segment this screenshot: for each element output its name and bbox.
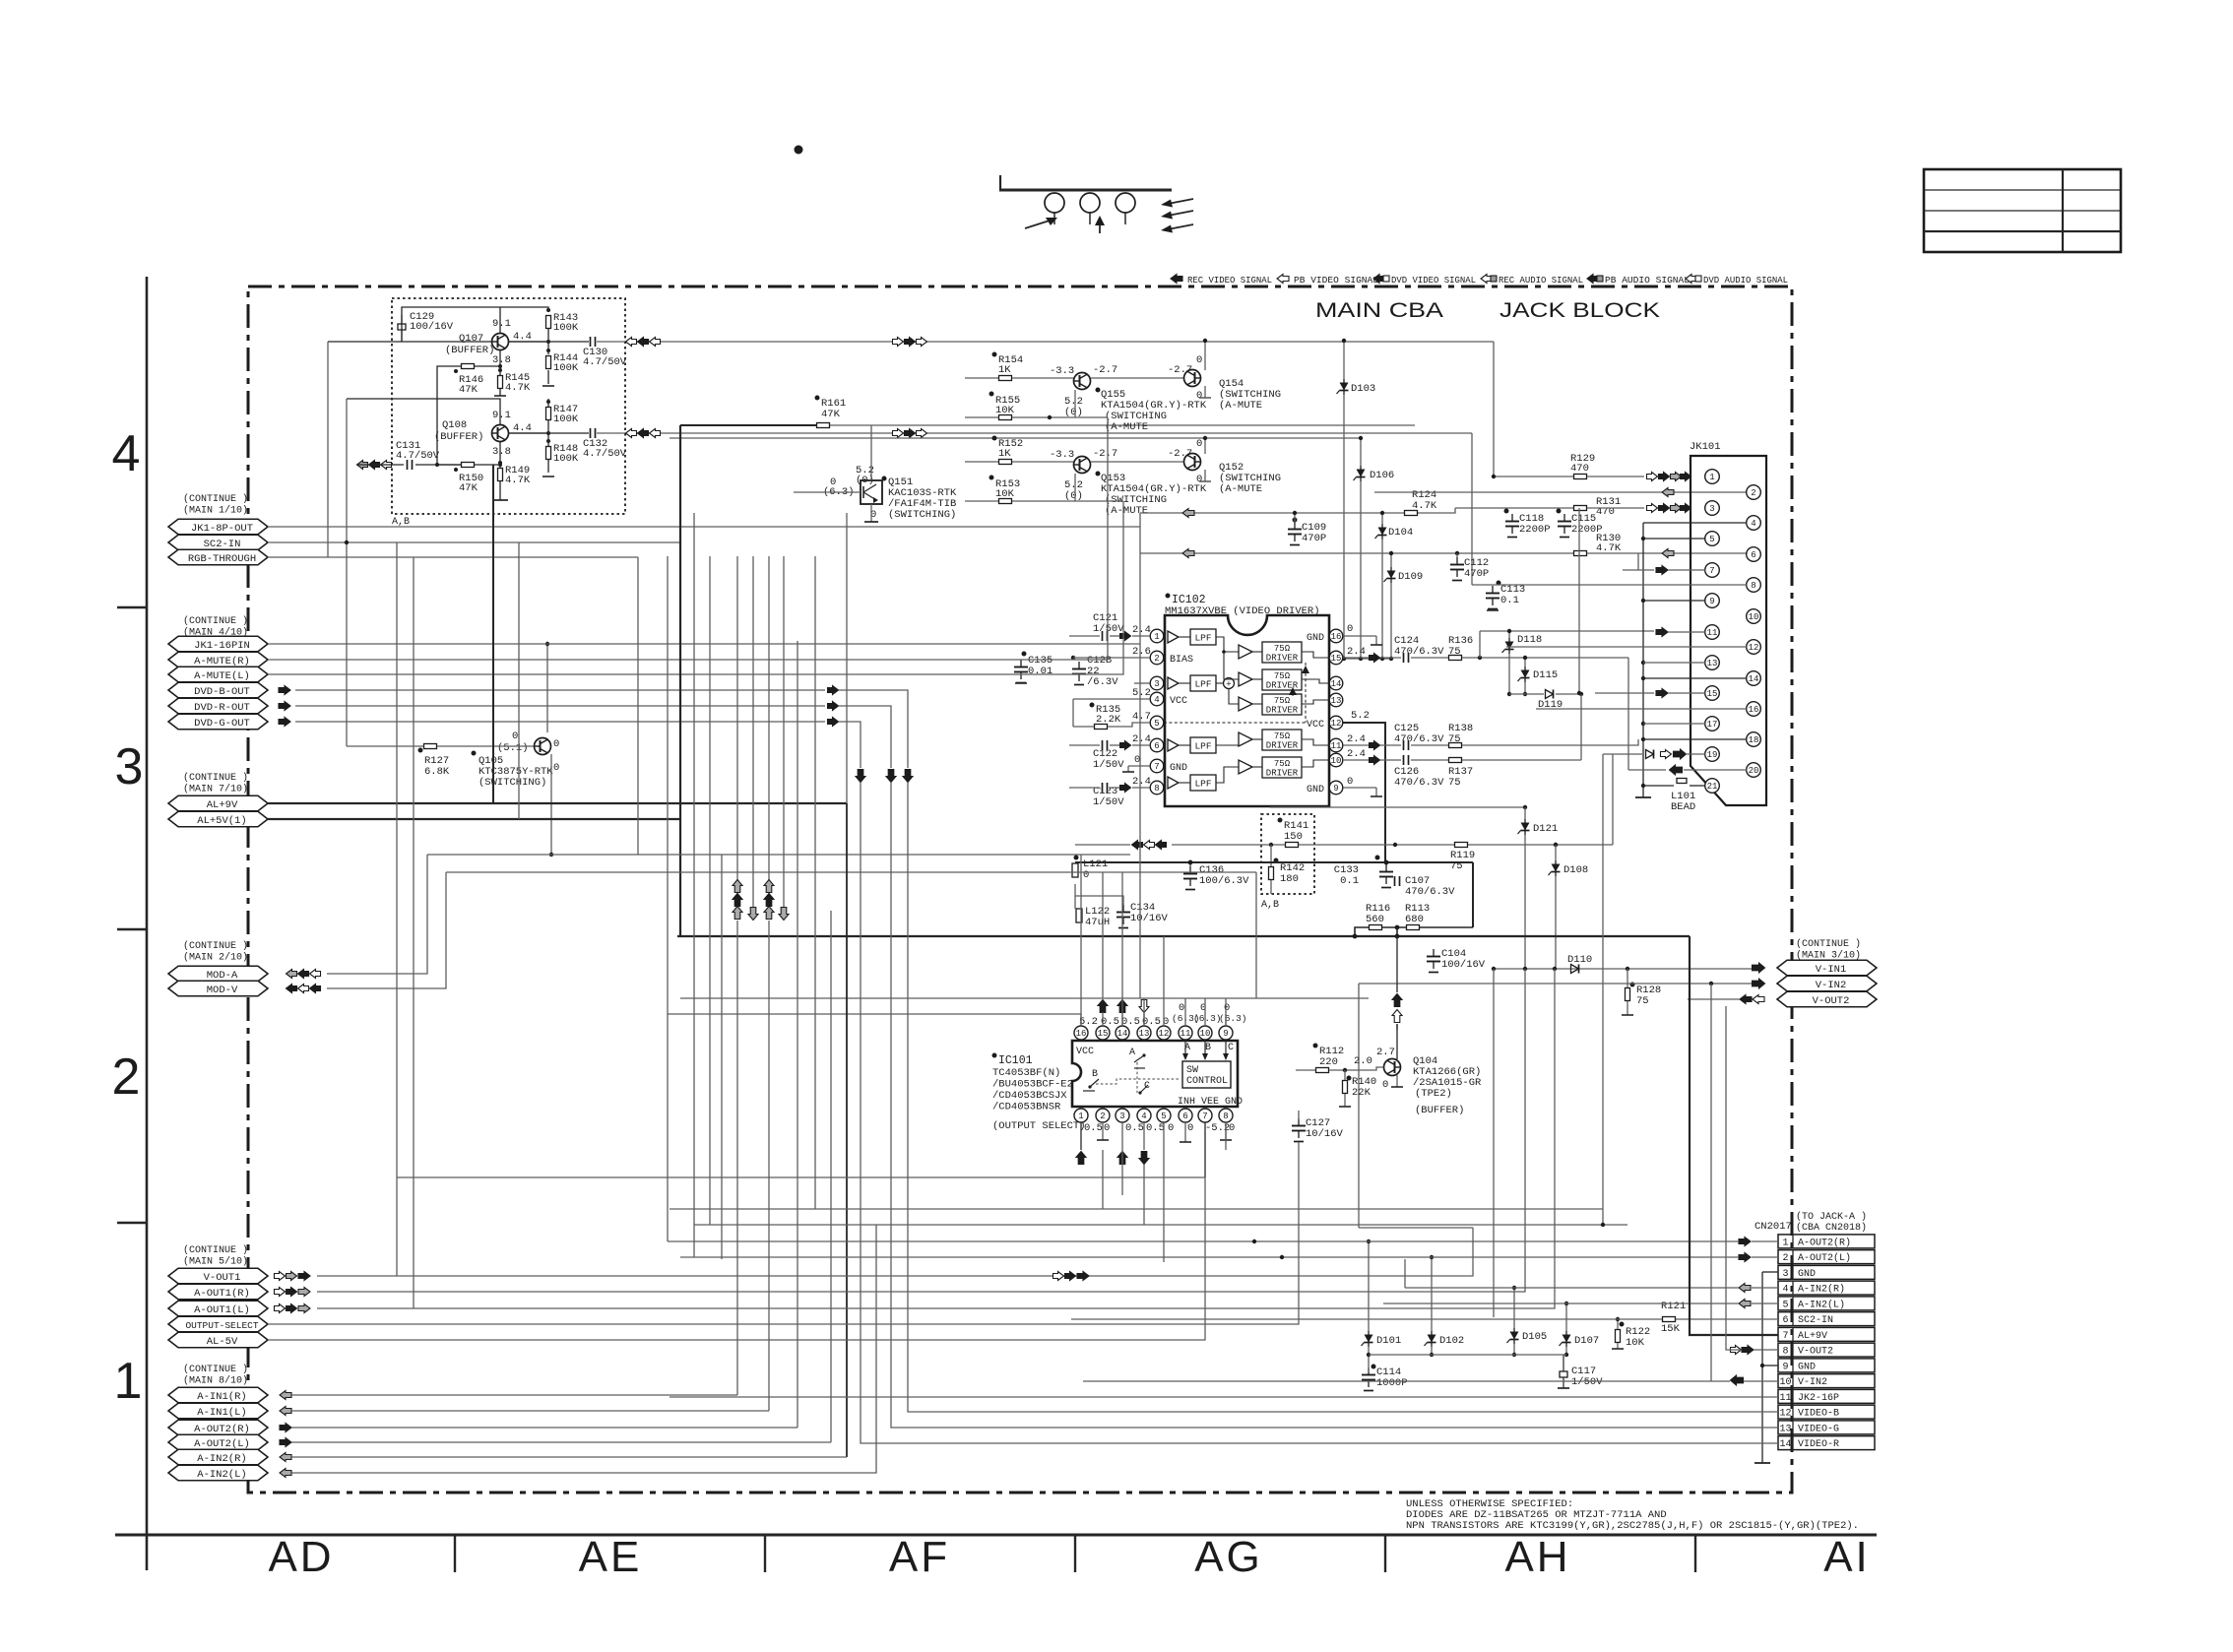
IC102 75ohm driver 2 box bbox=[1262, 669, 1302, 690]
wire V-IN1 y984 bbox=[1494, 968, 1752, 970]
svg-text:470: 470 bbox=[1570, 463, 1589, 475]
svg-text:MAIN CBA: MAIN CBA bbox=[1315, 299, 1443, 322]
JK101 pin 18 bbox=[1747, 732, 1761, 747]
inductor L101 BEAD bbox=[1677, 779, 1687, 784]
svg-text:0.5: 0.5 bbox=[1125, 1122, 1144, 1134]
IC102 pin 13 bbox=[1329, 693, 1343, 707]
svg-text:1: 1 bbox=[1782, 1238, 1788, 1248]
arrow CN2017 pin8 bbox=[1731, 1346, 1742, 1355]
IC102 pin 15 bbox=[1329, 651, 1343, 665]
svg-text:75: 75 bbox=[1448, 777, 1461, 789]
svg-text:(TPE2): (TPE2) bbox=[1415, 1088, 1452, 1100]
svg-text:1: 1 bbox=[114, 1353, 143, 1410]
wire pin3 left bbox=[1134, 682, 1150, 684]
wire Q105 base bbox=[347, 745, 423, 747]
svg-text:A-IN2(R): A-IN2(R) bbox=[1798, 1284, 1845, 1296]
svg-text:GND: GND bbox=[1307, 633, 1324, 644]
node SC2-IN bbox=[168, 535, 268, 550]
svg-text:A-MUTE(L): A-MUTE(L) bbox=[194, 670, 250, 682]
wires below IC101 pins bbox=[1080, 1122, 1082, 1150]
svg-text:D106: D106 bbox=[1370, 470, 1394, 481]
arrow DVD-R-OUT bbox=[279, 702, 290, 711]
wire R129 to JK pin1 bbox=[1494, 476, 1573, 477]
svg-text:75Ω: 75Ω bbox=[1274, 644, 1291, 654]
IC101 pin2 gnd bbox=[1102, 1122, 1104, 1140]
arrow JK pin2 bbox=[1662, 488, 1674, 497]
column tick 4 bbox=[1384, 1535, 1386, 1572]
svg-text:D108: D108 bbox=[1563, 864, 1588, 876]
capacitor C109 bbox=[1293, 518, 1298, 523]
svg-text:2200P: 2200P bbox=[1519, 524, 1551, 536]
svg-text:0.1: 0.1 bbox=[1340, 875, 1359, 887]
wire AL+5V(1) run bbox=[268, 818, 680, 820]
IC102 LPF3 box bbox=[1190, 675, 1216, 691]
wire bus y445 bbox=[670, 437, 1361, 439]
svg-text:4.7K: 4.7K bbox=[505, 382, 531, 394]
node V-IN1 bbox=[1777, 960, 1877, 976]
IC101 pin6 gnd bbox=[1184, 1122, 1186, 1142]
svg-text:/CD4053BCSJX: /CD4053BCSJX bbox=[992, 1090, 1067, 1102]
connector CN2017 pin 10 V-IN2 bbox=[1778, 1374, 1875, 1388]
JK101 pin 7 bbox=[1705, 563, 1720, 578]
node OUTPUT-SELECT bbox=[168, 1316, 268, 1332]
svg-text:A-OUT2(L): A-OUT2(L) bbox=[194, 1438, 250, 1450]
svg-text:(A-MUTE: (A-MUTE bbox=[1219, 483, 1262, 495]
svg-text:JK1-8P-OUT: JK1-8P-OUT bbox=[191, 523, 253, 535]
arrow A-OUT2(L) bbox=[280, 1438, 291, 1447]
svg-text:7: 7 bbox=[1782, 1331, 1788, 1342]
wire A-MUTE(L) run bbox=[268, 501, 1123, 674]
JK101 pin 3 bbox=[1705, 501, 1720, 516]
node A-IN1(R) bbox=[168, 1387, 268, 1403]
resistor R155 bbox=[989, 392, 994, 397]
svg-text:13: 13 bbox=[1139, 1029, 1150, 1039]
svg-text:4: 4 bbox=[1751, 519, 1755, 529]
svg-text:220: 220 bbox=[1319, 1056, 1338, 1068]
svg-text:MOD-V: MOD-V bbox=[207, 985, 238, 996]
capacitor C128 bbox=[1078, 662, 1080, 669]
JK101 pin 20 bbox=[1747, 763, 1761, 778]
svg-text:(CONTINUE ): (CONTINUE ) bbox=[183, 772, 248, 784]
svg-text:2.4: 2.4 bbox=[1347, 748, 1366, 760]
svg-text:A-OUT2(R): A-OUT2(R) bbox=[194, 1424, 250, 1435]
wire R155 to Q155 base bbox=[965, 416, 998, 418]
wire A-IN2(R) run bbox=[291, 1456, 847, 1458]
row tick 2/1 bbox=[117, 1222, 147, 1224]
vertical bus x333 bbox=[327, 342, 329, 557]
svg-text:0.5: 0.5 bbox=[1084, 1122, 1103, 1134]
resistor R153 bbox=[989, 476, 994, 480]
svg-text:4: 4 bbox=[1154, 695, 1159, 705]
svg-text:GND: GND bbox=[1307, 785, 1324, 795]
svg-text:13: 13 bbox=[1779, 1424, 1791, 1434]
svg-text:3: 3 bbox=[1154, 679, 1159, 689]
wire AL-5V run bbox=[268, 1177, 1205, 1340]
svg-text:0: 0 bbox=[1104, 1122, 1110, 1134]
svg-text:LPF: LPF bbox=[1194, 633, 1211, 644]
IC102 pin 16 bbox=[1329, 629, 1343, 643]
transistor Q155 bbox=[1074, 373, 1091, 390]
svg-text:DVD-B-OUT: DVD-B-OUT bbox=[194, 686, 250, 698]
IC101 pin 11 bbox=[1179, 1026, 1192, 1040]
svg-text:0.01: 0.01 bbox=[1028, 666, 1053, 677]
wire diode bottoms y669 bbox=[1344, 658, 1391, 660]
svg-text:AL-5V: AL-5V bbox=[207, 1336, 238, 1348]
stray dot mark bbox=[795, 146, 803, 155]
wire V-IN2 stub down bbox=[1710, 984, 1712, 1381]
svg-text:7: 7 bbox=[1709, 566, 1714, 576]
svg-text:V-OUT1: V-OUT1 bbox=[204, 1272, 241, 1284]
svg-text:(MAIN 7/10): (MAIN 7/10) bbox=[183, 784, 248, 795]
svg-text:47uH: 47uH bbox=[1085, 917, 1110, 928]
JK101 pin 14 bbox=[1747, 671, 1761, 686]
resistor R140 bbox=[1347, 1076, 1352, 1081]
connector CN2017 pin 13 VIDEO-G bbox=[1778, 1421, 1875, 1434]
svg-text:10: 10 bbox=[1779, 1377, 1791, 1388]
wire pin9 gnd bbox=[1343, 787, 1376, 789]
connector CN2017 pin 7 AL+9V bbox=[1778, 1327, 1875, 1341]
arrow A-OUT2(R) bbox=[280, 1424, 291, 1432]
svg-text:6: 6 bbox=[1782, 1315, 1788, 1326]
svg-text:5: 5 bbox=[1782, 1300, 1788, 1310]
svg-text:A,B: A,B bbox=[1261, 900, 1279, 911]
arrow CN2017 pin5 bbox=[1739, 1300, 1751, 1308]
transistor Q151 (boxed digital transistor) bbox=[861, 480, 882, 504]
svg-text:D109: D109 bbox=[1398, 571, 1423, 583]
svg-text:9.1: 9.1 bbox=[492, 318, 511, 330]
svg-text:A-IN2(L): A-IN2(L) bbox=[1798, 1299, 1845, 1310]
transistor Q152 bbox=[1184, 454, 1201, 471]
IC102 LPF6 box bbox=[1190, 737, 1216, 753]
label Q105 name bbox=[472, 751, 477, 756]
svg-text:0: 0 bbox=[553, 738, 559, 750]
svg-text:4.7/50V: 4.7/50V bbox=[583, 356, 627, 368]
svg-text:10: 10 bbox=[1200, 1029, 1211, 1039]
wire x781 down bbox=[768, 921, 770, 1411]
IC102 LPF6 amp bbox=[1168, 739, 1179, 751]
svg-text:2.4: 2.4 bbox=[1132, 776, 1151, 788]
diode D110 bbox=[1571, 965, 1579, 974]
connector CN2017 pin 14 VIDEO-R bbox=[1778, 1436, 1875, 1450]
arrows on video wire 2 bbox=[626, 429, 637, 438]
arrow CN2017 pin1 bbox=[1739, 1238, 1751, 1246]
connector CN2017 pin 6 SC2-IN bbox=[1778, 1312, 1875, 1326]
svg-text:D115: D115 bbox=[1533, 669, 1558, 681]
svg-text:(A-MUTE: (A-MUTE bbox=[1105, 505, 1148, 517]
svg-text:CONTROL: CONTROL bbox=[1186, 1076, 1228, 1087]
wire y1228b bbox=[1181, 1208, 1603, 1210]
node A-IN1(L) bbox=[168, 1403, 268, 1419]
wire pin1 left bbox=[1069, 635, 1100, 637]
transistor Q104 bbox=[1384, 1059, 1401, 1076]
svg-text:1/50V: 1/50V bbox=[1093, 759, 1124, 771]
transistor Q108 bbox=[492, 425, 509, 442]
svg-text:2: 2 bbox=[112, 1048, 141, 1106]
wire x749 down bbox=[736, 921, 738, 1395]
node AL-5V bbox=[168, 1332, 268, 1348]
capacitor C133 bbox=[1375, 856, 1380, 860]
svg-text:D118: D118 bbox=[1517, 634, 1542, 646]
IC102 dashed VCC feed bbox=[1305, 663, 1307, 723]
node A-IN2(R) bbox=[168, 1449, 268, 1465]
svg-text:1K: 1K bbox=[998, 364, 1011, 376]
IC101 pin 16 bbox=[1074, 1026, 1088, 1040]
CN2017 gnd bus bbox=[1762, 1271, 1778, 1273]
svg-text:(OUTPUT SELECT): (OUTPUT SELECT) bbox=[992, 1120, 1086, 1132]
svg-text:A-MUTE(R): A-MUTE(R) bbox=[194, 656, 250, 667]
svg-text:2.6: 2.6 bbox=[1132, 646, 1151, 658]
vertical bus x749 bbox=[736, 556, 738, 917]
node DVD-G-OUT bbox=[168, 714, 268, 730]
wire A-OUT1(R) run bbox=[317, 969, 1525, 1292]
svg-text:(CONTINUE ): (CONTINUE ) bbox=[183, 615, 248, 627]
node A-MUTE(R) bbox=[168, 652, 268, 667]
svg-text:DRIVER: DRIVER bbox=[1266, 741, 1299, 751]
svg-text:22K: 22K bbox=[1352, 1087, 1372, 1099]
wire Q104 collector bbox=[1396, 1024, 1398, 1059]
row tick 3/2 bbox=[117, 928, 147, 930]
IC102 pin 12 bbox=[1329, 716, 1343, 730]
wire Q105 collector bbox=[546, 644, 548, 732]
svg-text:(MAIN 2/10): (MAIN 2/10) bbox=[183, 952, 248, 964]
node V-OUT2 bbox=[1777, 991, 1877, 1007]
arrow DVD-B-OUT bbox=[279, 686, 290, 695]
svg-text:4: 4 bbox=[112, 425, 141, 482]
column tick 5 bbox=[1694, 1535, 1696, 1572]
connector CN2017 pin 4 A-IN2(R) bbox=[1778, 1281, 1875, 1295]
arrows MOD-V bbox=[287, 985, 297, 993]
diode D106 bbox=[1360, 466, 1362, 481]
wire JK1-8P-OUT run bbox=[268, 526, 1140, 528]
arrows below IC101 pins bbox=[1076, 1152, 1086, 1165]
IC102 pin 7 bbox=[1150, 759, 1164, 773]
wire Q108 emitter to C132 and right bbox=[509, 432, 589, 434]
wire audio line y521 bbox=[1140, 512, 1405, 514]
resistor R145 bbox=[498, 376, 503, 389]
legend arrow+text: PB VIDEO SIGNAL bbox=[1277, 275, 1289, 284]
transistor Q107 bbox=[492, 334, 509, 350]
JK101 pin 6 bbox=[1747, 547, 1761, 562]
diode D119 bbox=[1546, 690, 1554, 699]
svg-text:0: 0 bbox=[1196, 354, 1202, 366]
IC101 pin 1 bbox=[1074, 1109, 1088, 1122]
IC102 75ohm driver 1 amp bbox=[1239, 645, 1252, 659]
node JK1-16PIN bbox=[168, 636, 268, 652]
arrow A-IN2(L) bbox=[280, 1469, 291, 1478]
vertical bus x403 bbox=[396, 542, 398, 1276]
IC101 pin 10 bbox=[1198, 1026, 1212, 1040]
resistor R112 bbox=[1313, 1044, 1318, 1048]
svg-text:5: 5 bbox=[1154, 719, 1159, 729]
svg-text:9: 9 bbox=[1223, 1029, 1228, 1039]
svg-text:/6.3V: /6.3V bbox=[1087, 676, 1118, 688]
svg-text:16: 16 bbox=[1076, 1029, 1087, 1039]
wire CN pin5 run bbox=[1383, 1303, 1739, 1304]
svg-text:0.5: 0.5 bbox=[1142, 1016, 1161, 1028]
svg-text:-2.7: -2.7 bbox=[1093, 448, 1117, 460]
svg-text:0: 0 bbox=[1196, 390, 1202, 402]
svg-text:4.4: 4.4 bbox=[513, 422, 532, 434]
column tick 1 bbox=[454, 1535, 456, 1572]
svg-text:A-OUT2(L): A-OUT2(L) bbox=[1798, 1252, 1851, 1264]
connector CN2017 pin 2 A-OUT2(L) bbox=[1778, 1250, 1875, 1264]
svg-text:AD: AD bbox=[268, 1533, 334, 1581]
svg-text:VIDEO-R: VIDEO-R bbox=[1798, 1439, 1839, 1450]
svg-text:0: 0 bbox=[1229, 1122, 1235, 1134]
svg-text:D104: D104 bbox=[1388, 527, 1413, 539]
wire JK pin8 bbox=[1472, 584, 1747, 586]
svg-text:3.8: 3.8 bbox=[492, 354, 511, 366]
buffer stage dotted box A,B bbox=[392, 298, 625, 514]
svg-text:LPF: LPF bbox=[1194, 779, 1211, 790]
IC101 SW CONTROL box bbox=[1182, 1061, 1231, 1088]
svg-text:LPF: LPF bbox=[1194, 741, 1211, 752]
svg-text:100K: 100K bbox=[553, 413, 579, 425]
IC102 pin 4 bbox=[1150, 692, 1164, 706]
diode D115 bbox=[1524, 667, 1526, 682]
arrows A-OUT1(R) bbox=[275, 1288, 286, 1297]
wire V-IN2 y999 bbox=[1359, 983, 1752, 985]
svg-text:3: 3 bbox=[115, 738, 144, 795]
svg-text:10: 10 bbox=[1749, 612, 1759, 622]
wire bus y886 bbox=[446, 871, 1256, 873]
IC102 75ohm driver 1 box bbox=[1262, 642, 1302, 663]
wire JK pin19 bbox=[1603, 753, 1642, 755]
IC102 LPF8 amp bbox=[1168, 777, 1179, 789]
heavy bus wire y951 bbox=[677, 935, 1690, 937]
svg-text:A-IN2(L): A-IN2(L) bbox=[197, 1469, 246, 1481]
wire y876 bus bbox=[1075, 861, 1473, 863]
IC102 pin 6 bbox=[1150, 738, 1164, 752]
svg-text:REC AUDIO SIGNAL: REC AUDIO SIGNAL bbox=[1499, 275, 1583, 286]
wire pin7 gnd bbox=[1128, 765, 1150, 767]
wire Q104 vert continues bbox=[1396, 1024, 1398, 1030]
wire pin15 right bbox=[1343, 657, 1369, 659]
svg-text:12: 12 bbox=[1159, 1029, 1170, 1039]
diode D103 bbox=[1343, 379, 1345, 395]
wire to Q151 base bbox=[794, 491, 861, 493]
tape icon roller 2 bbox=[1080, 193, 1100, 213]
svg-text:Q108: Q108 bbox=[442, 419, 467, 431]
svg-text:(SWITCHING): (SWITCHING) bbox=[888, 509, 956, 521]
bottom axis line bbox=[115, 1534, 1877, 1537]
capacitor C135 bbox=[1022, 652, 1027, 657]
svg-text:10/16V: 10/16V bbox=[1306, 1128, 1344, 1140]
arrow into pin1 bbox=[1120, 632, 1131, 641]
svg-text:JACK BLOCK: JACK BLOCK bbox=[1499, 299, 1660, 322]
wire CN pin10 V-IN2 bbox=[1083, 1380, 1730, 1382]
resistor R143 bbox=[546, 316, 551, 329]
Q151 emitter ground bbox=[870, 504, 872, 522]
wire A-IN1(R) run bbox=[291, 1394, 737, 1396]
svg-text:560: 560 bbox=[1366, 914, 1384, 925]
arrows above IC101 pins 15/14/13 bbox=[1098, 1000, 1108, 1013]
arrow V-IN1 bbox=[1753, 963, 1765, 973]
vertical bus x733 bbox=[721, 855, 723, 1259]
svg-text:(0): (0) bbox=[1064, 407, 1083, 418]
resistor R161 bbox=[815, 396, 820, 401]
column tick 3 bbox=[1074, 1535, 1076, 1572]
IC102 adder circle bbox=[1224, 678, 1235, 689]
svg-text:6: 6 bbox=[1154, 741, 1159, 751]
wire L122 branch bbox=[1074, 884, 1076, 909]
svg-text:4.7K: 4.7K bbox=[1596, 542, 1622, 554]
diode D121 bbox=[1270, 806, 1525, 808]
wire CN pin2 run bbox=[680, 1256, 1739, 1258]
svg-text:-3.3: -3.3 bbox=[1050, 449, 1074, 461]
svg-text:V-IN2: V-IN2 bbox=[1798, 1377, 1827, 1388]
IC101 pin 13 bbox=[1137, 1026, 1151, 1040]
svg-text:8: 8 bbox=[1154, 784, 1159, 794]
svg-text:INH VEE GND: INH VEE GND bbox=[1178, 1097, 1243, 1108]
svg-text:0: 0 bbox=[1083, 869, 1089, 881]
svg-text:4: 4 bbox=[1782, 1285, 1788, 1296]
node DVD-B-OUT bbox=[168, 682, 268, 698]
wire pin2 left bbox=[1073, 657, 1150, 659]
svg-text:0: 0 bbox=[1347, 623, 1353, 635]
wire JK pin16 bbox=[1536, 708, 1747, 710]
IC102 pin 14 bbox=[1329, 676, 1343, 690]
svg-text:(BUFFER): (BUFFER) bbox=[1415, 1105, 1464, 1116]
svg-text:VCC: VCC bbox=[1170, 696, 1187, 707]
capacitor C134 bbox=[1122, 905, 1124, 913]
svg-text:/CD4053BNSR: /CD4053BNSR bbox=[992, 1102, 1061, 1113]
node AL+9V bbox=[168, 795, 268, 811]
svg-text:JK1-16PIN: JK1-16PIN bbox=[194, 640, 250, 652]
svg-text:5.2: 5.2 bbox=[1351, 710, 1370, 722]
wire JK pin20 bbox=[1628, 769, 1666, 771]
svg-text:RGB-THROUGH: RGB-THROUGH bbox=[188, 553, 256, 565]
legend arrow+text: REC VIDEO SIGNAL bbox=[1171, 275, 1182, 284]
svg-text:DVD-G-OUT: DVD-G-OUT bbox=[194, 718, 250, 730]
IC101 pin 5 bbox=[1157, 1109, 1171, 1122]
svg-text:6: 6 bbox=[1182, 1112, 1187, 1121]
arrows V-OUT2 bbox=[1740, 995, 1752, 1004]
wire pin11 right bbox=[1343, 744, 1369, 746]
JK101 pin 12 bbox=[1747, 640, 1761, 655]
IC102 internal wires bbox=[1216, 637, 1239, 652]
wire audio line y562 bbox=[1140, 552, 1573, 554]
svg-text:9.1: 9.1 bbox=[492, 410, 511, 421]
IC101 pin 3 bbox=[1116, 1109, 1129, 1122]
svg-text:9: 9 bbox=[1333, 784, 1338, 794]
svg-text:4.7K: 4.7K bbox=[505, 475, 531, 486]
svg-text:2: 2 bbox=[1100, 1112, 1105, 1121]
svg-text:D110: D110 bbox=[1567, 954, 1592, 966]
IC101 pin 12 bbox=[1157, 1026, 1171, 1040]
svg-text:5: 5 bbox=[1709, 535, 1714, 544]
vertical bus x810b bbox=[797, 641, 798, 911]
svg-text:AL+9V: AL+9V bbox=[1798, 1331, 1827, 1342]
svg-text:GND: GND bbox=[1170, 763, 1187, 774]
JK101 bus ground bbox=[1635, 796, 1651, 798]
wire A-IN2(L) run bbox=[291, 1225, 876, 1473]
wire Q154 emitter down bbox=[1204, 386, 1206, 398]
vertical bus x352 bbox=[346, 399, 348, 746]
svg-text:SC2-IN: SC2-IN bbox=[204, 539, 241, 550]
transistor Q153 bbox=[1074, 457, 1091, 474]
wire bus y1014 bbox=[680, 997, 1369, 999]
legend arrow+text: DVD VIDEO SIGNAL bbox=[1373, 275, 1383, 284]
IC102 LPF8 box bbox=[1190, 775, 1216, 791]
wire x1517 down bbox=[1493, 969, 1495, 1317]
svg-text:5.2: 5.2 bbox=[1079, 1016, 1098, 1028]
svg-text:(CONTINUE ): (CONTINUE ) bbox=[183, 1364, 248, 1375]
svg-text:0: 0 bbox=[1196, 474, 1202, 485]
resistor R148 bbox=[546, 447, 551, 460]
wire R154 to Q155 bbox=[965, 377, 998, 379]
JK101 bus stubs bbox=[1643, 522, 1747, 524]
